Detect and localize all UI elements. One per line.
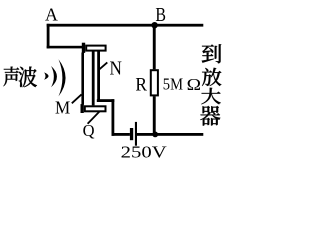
svg-text:250V: 250V bbox=[121, 142, 168, 159]
wire to microphone top clamp bbox=[47, 46, 83, 49]
sound wave arc middle bbox=[51, 66, 57, 87]
svg-text:N: N bbox=[110, 58, 122, 80]
resistor R box bbox=[151, 70, 158, 95]
wire B to resistor bbox=[153, 26, 156, 69]
wire resistor to bottom junction bbox=[153, 96, 156, 134]
wire top A-B bbox=[47, 24, 204, 27]
svg-text:R: R bbox=[135, 74, 147, 95]
text to amplifier dao bbox=[202, 44, 221, 63]
wire N vertical down bbox=[112, 99, 115, 136]
microphone top clamp terminal tick bbox=[82, 43, 85, 53]
wire left vertical from A corner bbox=[47, 24, 50, 49]
junction dot bottom bbox=[152, 132, 158, 138]
svg-text:5M: 5M bbox=[163, 74, 183, 93]
microphone bottom clamp terminal tick bbox=[81, 104, 84, 113]
wire bottom right segment bbox=[137, 133, 203, 136]
leader line M bbox=[72, 94, 82, 103]
text to amplifier da bbox=[201, 88, 220, 105]
svg-text:B: B bbox=[155, 4, 166, 26]
fixed plate N right edge bbox=[97, 52, 100, 103]
fixed plate N left edge bbox=[92, 52, 95, 106]
battery positive long plate bbox=[135, 122, 137, 146]
microphone top clamp bar bbox=[86, 46, 105, 51]
sound wave arc large bbox=[59, 59, 66, 96]
battery negative short plate bbox=[130, 128, 133, 140]
leader line Q bbox=[88, 111, 100, 123]
svg-text:A: A bbox=[45, 4, 58, 24]
microphone bottom clamp bar bbox=[85, 106, 106, 111]
text to amplifier qi bbox=[200, 106, 220, 126]
svg-text:M: M bbox=[55, 98, 70, 118]
node B junction dot bbox=[151, 22, 157, 28]
text to amplifier fang bbox=[202, 68, 221, 86]
sound wave text sheng bbox=[3, 67, 19, 87]
diaphragm plate M bbox=[81, 53, 84, 105]
wire N horizontal bbox=[97, 99, 115, 102]
sound wave arc small bbox=[44, 72, 48, 79]
sound wave text bo bbox=[18, 67, 37, 88]
leader line N bbox=[98, 62, 107, 70]
svg-text:Ω: Ω bbox=[187, 75, 201, 94]
wire bottom left segment bbox=[112, 133, 130, 136]
